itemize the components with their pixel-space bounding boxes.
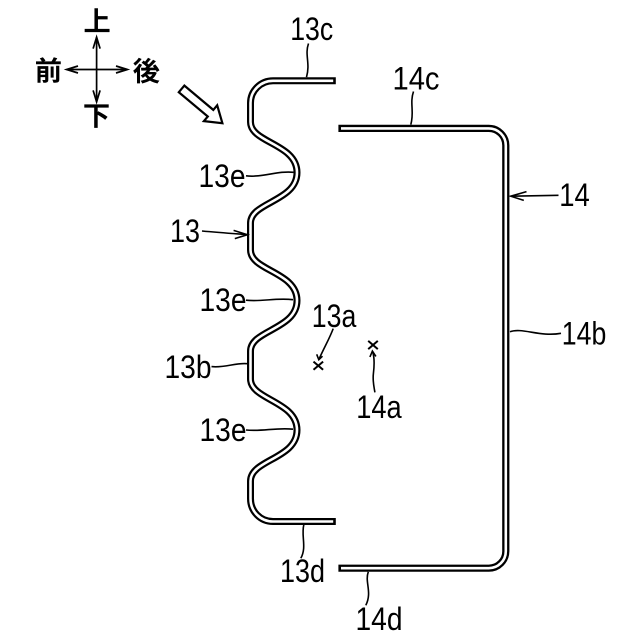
leader 13d [301, 525, 304, 559]
leader 13b [212, 364, 248, 367]
leader 13c [307, 44, 309, 78]
part 13 corrugated plate outline [251, 81, 336, 522]
leader 14b [510, 331, 561, 335]
leader arrow 14 [511, 192, 559, 201]
svg-text:13: 13 [170, 213, 200, 249]
svg-text:14: 14 [559, 177, 590, 213]
leader arrow 13 [202, 230, 247, 238]
svg-text:13a: 13a [312, 298, 357, 334]
kanji rear (後) [133, 58, 159, 84]
leader 14c [411, 92, 414, 125]
axis arrow horizontal [67, 66, 128, 73]
leader 14a with arrowhead [370, 351, 376, 392]
leader 14d [366, 572, 369, 606]
axis arrow vertical [93, 37, 100, 102]
leader 13e first bead [246, 172, 294, 176]
svg-text:13e: 13e [199, 158, 246, 194]
svg-text:13e: 13e [200, 282, 247, 318]
leader 13e second bead [246, 299, 293, 301]
weld point 13a x-mark [314, 362, 324, 370]
svg-text:14c: 14c [393, 61, 440, 97]
svg-text:13b: 13b [165, 349, 212, 385]
leader 13a with arrowhead [317, 329, 334, 360]
kanji down (下) [84, 104, 108, 127]
svg-text:14a: 14a [356, 389, 402, 425]
weld point 14a x-mark [368, 341, 378, 349]
svg-text:13e: 13e [200, 412, 247, 448]
leader 13e third bead [246, 429, 293, 431]
part 14 bracket outline [338, 128, 505, 568]
kanji front (前) [36, 57, 61, 83]
svg-text:14b: 14b [562, 316, 607, 352]
open direction arrow [179, 86, 223, 124]
kanji up (上) [85, 8, 110, 32]
svg-text:13d: 13d [280, 553, 325, 589]
svg-text:13c: 13c [290, 11, 333, 47]
svg-text:14d: 14d [356, 601, 403, 637]
